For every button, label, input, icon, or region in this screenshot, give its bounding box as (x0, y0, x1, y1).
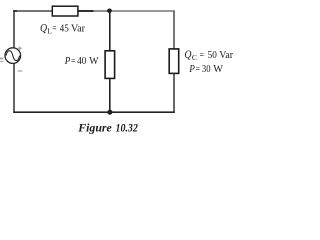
svg-text:=: = (196, 64, 200, 75)
svg-text:Var: Var (219, 50, 233, 61)
svg-text:P: P (64, 55, 71, 67)
svg-text:=: = (52, 24, 56, 35)
svg-text:Var: Var (71, 24, 86, 35)
svg-text:C: C (192, 53, 197, 62)
svg-text:30: 30 (202, 64, 211, 75)
svg-text:=: = (200, 50, 204, 61)
svg-text:50: 50 (208, 50, 217, 61)
svg-text:Figure: Figure (77, 121, 112, 135)
svg-text:P: P (188, 63, 195, 75)
svg-text:45: 45 (60, 24, 69, 35)
svg-text:10.32: 10.32 (116, 121, 138, 135)
svg-text:=: = (71, 56, 75, 67)
svg-text:W: W (89, 56, 99, 67)
svg-text:W: W (213, 64, 223, 75)
svg-text:40: 40 (77, 56, 86, 67)
